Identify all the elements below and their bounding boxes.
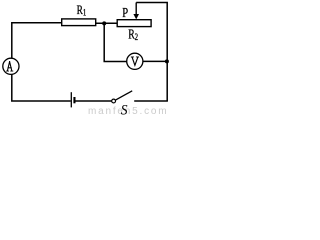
svg-text:S: S bbox=[121, 103, 128, 116]
svg-text:R1: R1 bbox=[77, 4, 87, 18]
svg-text:R2: R2 bbox=[128, 27, 138, 42]
wire switch to bottom-right corner bbox=[134, 100, 168, 102]
voltmeter letter V bbox=[131, 57, 138, 65]
ammeter letter A bbox=[7, 62, 13, 72]
wire wiper to top-right corner and down right rail bbox=[136, 3, 167, 102]
node junction dot bbox=[102, 21, 106, 25]
resistor R1 bbox=[62, 19, 96, 26]
svg-text:manfen5.com: manfen5.com bbox=[88, 106, 168, 116]
wire battery to switch bbox=[76, 100, 112, 102]
wire R1 to junction to R2 bbox=[96, 22, 118, 24]
wire top-left horizontal (node between A and R1) bbox=[12, 23, 62, 59]
rheostat R2 bbox=[117, 20, 151, 27]
switch pivot circle bbox=[112, 99, 116, 103]
battery short negative plate bbox=[73, 97, 75, 103]
wire junction down to voltmeter bbox=[104, 23, 127, 61]
wiper arrow of R2 bbox=[135, 3, 137, 16]
battery long positive plate bbox=[70, 92, 72, 107]
wire ammeter down to bottom-left corner and to battery bbox=[12, 74, 71, 101]
switch lever bbox=[116, 91, 133, 100]
wire voltmeter to right rail bbox=[143, 60, 167, 62]
svg-text:P: P bbox=[122, 4, 128, 20]
ammeter A1 circle bbox=[3, 58, 19, 74]
voltmeter U1 circle bbox=[127, 53, 143, 69]
node dot on right rail bbox=[165, 59, 169, 63]
